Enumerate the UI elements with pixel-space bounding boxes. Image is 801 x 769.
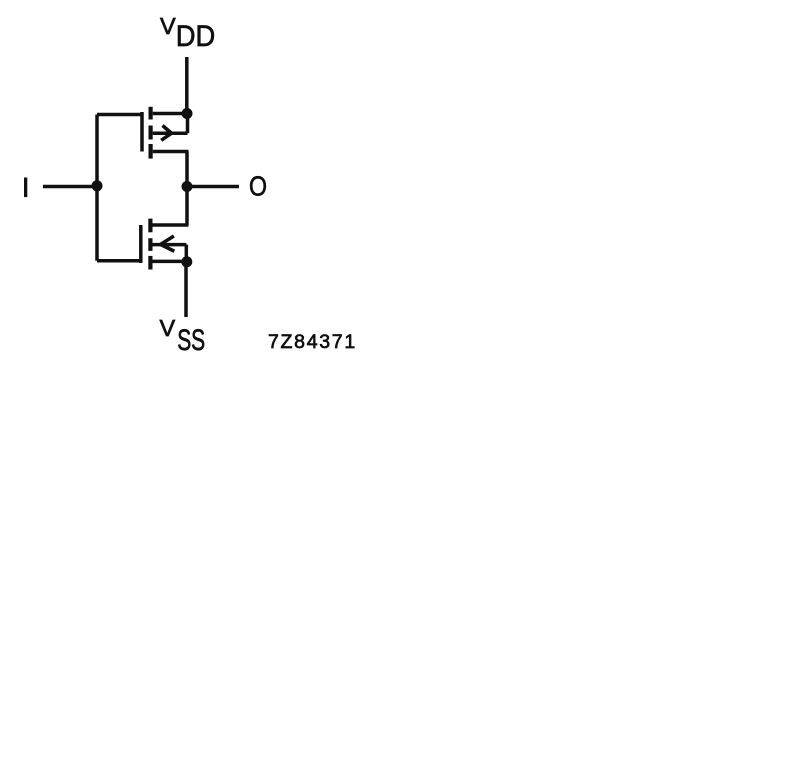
wire gate rail to Q2 gate bbox=[97, 259, 143, 263]
wire output node down to Q2 drain bbox=[185, 187, 189, 226]
svg-text:V: V bbox=[160, 13, 176, 39]
transistor Q2 gate bar bbox=[139, 225, 143, 263]
node VDD label bbox=[160, 13, 215, 53]
node I label bbox=[24, 178, 27, 198]
junction dot input/gate rail bbox=[92, 180, 103, 191]
transistor Q1 drain lead bbox=[153, 150, 189, 154]
svg-text:O: O bbox=[249, 171, 267, 202]
node O label bbox=[249, 171, 267, 202]
wire gate rail to Q1 gate bbox=[97, 113, 144, 117]
svg-text:SS: SS bbox=[177, 324, 205, 357]
transistor Q1 bulk arrow (points right, p-channel) bbox=[161, 126, 171, 141]
wire gate rail vertical bbox=[95, 115, 99, 261]
transistor Q1 source lead bbox=[153, 112, 187, 116]
transistor Q2 channel segments bbox=[148, 219, 152, 270]
transistor Q1 channel segments bbox=[149, 107, 153, 159]
wire output node to O bbox=[187, 185, 239, 189]
junction dot VDD/Q1 bbox=[182, 108, 193, 119]
transistor Q2 source lead bbox=[153, 260, 188, 264]
transistor Q2 bulk arrow (points left, n-channel) bbox=[161, 236, 175, 251]
svg-text:7Z84371: 7Z84371 bbox=[268, 331, 357, 353]
svg-text:DD: DD bbox=[176, 20, 216, 53]
junction dot output node bbox=[182, 181, 193, 192]
wire VDD rail down to Q1 source junction bbox=[185, 57, 189, 114]
node VSS label bbox=[160, 315, 206, 357]
wire Q2 source down to VSS bbox=[184, 262, 188, 317]
svg-text:V: V bbox=[160, 315, 176, 341]
figure number 7Z84371 bbox=[268, 331, 357, 353]
transistor Q1 bulk lead bbox=[153, 131, 188, 135]
junction dot Q2 source/VSS bbox=[181, 256, 192, 267]
transistor Q2 (NMOS) drain lead bbox=[153, 223, 189, 227]
transistor Q2 bulk lead bbox=[153, 243, 187, 247]
wire input I to gate rail bbox=[43, 185, 97, 189]
transistor Q1 bulk-to-source wire bbox=[186, 114, 190, 134]
transistor Q2 bulk-to-source wire bbox=[185, 245, 189, 262]
wire Q1 drain down to output node bbox=[185, 152, 189, 187]
transistor Q1 (PMOS) gate bar bbox=[140, 112, 144, 152]
